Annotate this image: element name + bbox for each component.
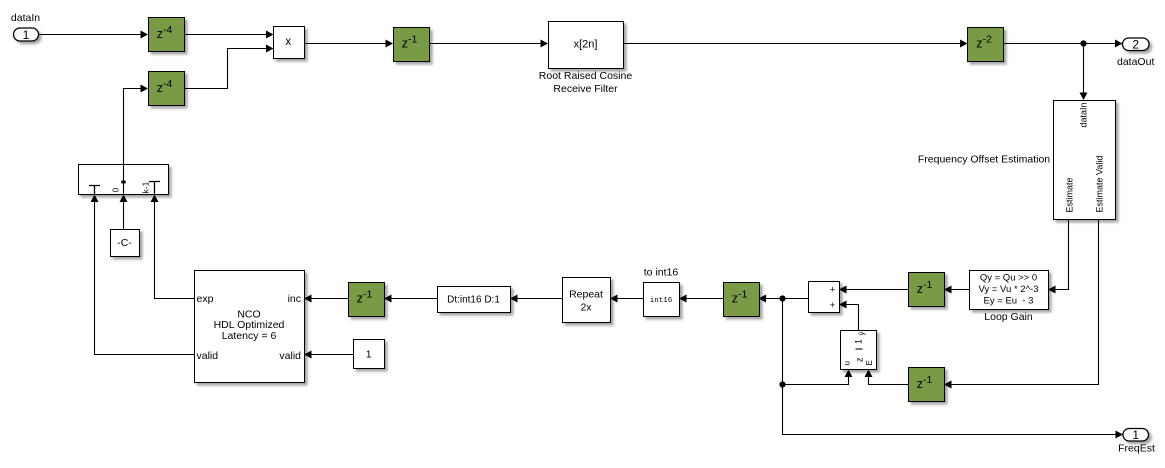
svg-text:valid: valid [197, 350, 219, 362]
svg-text:x[2n]: x[2n] [574, 39, 598, 51]
svg-text:2x: 2x [580, 302, 592, 314]
wire -C- up to switch [123, 202, 125, 229]
delay block z^-1 top [394, 28, 430, 62]
svg-text:1: 1 [854, 339, 864, 344]
svg-text:ŷ: ŷ [857, 332, 866, 336]
wire Estimate Valid down-left to z^-1 lower [952, 219, 1099, 385]
svg-text:Frequency Offset Estimation: Frequency Offset Estimation [918, 154, 1050, 166]
wire junction A down to junction B [782, 299, 784, 385]
Frequency Offset Estimation block [1054, 101, 1116, 220]
wire Loop Gain to z^-1 upper [952, 289, 970, 291]
rate transition block Dt:int16 D:1 [438, 287, 511, 313]
wire RRC to z^-2 [623, 43, 960, 45]
unit delay enabled block 1/z [841, 331, 877, 370]
svg-text:to int16: to int16 [644, 267, 679, 279]
delay block z^-1 right upper [909, 273, 945, 307]
svg-text:+: + [830, 285, 835, 295]
svg-text:Dt:int16 D:1: Dt:int16 D:1 [447, 295, 500, 306]
svg-text:Qy = Qu >> 0: Qy = Qu >> 0 [980, 273, 1037, 284]
svg-text:Ey = Eu - 3: Ey = Eu - 3 [984, 296, 1034, 307]
junction B [779, 381, 785, 387]
wire constant 1 to NCO valid [312, 354, 354, 356]
svg-text:Latency = 6: Latency = 6 [222, 330, 277, 342]
svg-text:exp: exp [197, 293, 214, 305]
junction A [779, 295, 785, 301]
svg-text:dataIn: dataIn [1079, 103, 1089, 128]
svg-text:2: 2 [1132, 38, 1139, 52]
wire junction B down to FreqEst [783, 385, 1116, 435]
control square [121, 181, 125, 184]
RRC filter block x[2n] [549, 22, 624, 69]
delay block z^-1 right lower [909, 368, 945, 402]
wire Repeat to Dt block [518, 298, 563, 300]
svg-text:int16: int16 [650, 297, 673, 305]
NCO block [195, 271, 305, 383]
wire junction B to 1/z u input [783, 377, 849, 385]
svg-text:u: u [843, 361, 852, 365]
wire Dt block to z^-1 [392, 298, 438, 300]
svg-text:1: 1 [1132, 428, 1139, 442]
wire z^-1 lower to 1/z E input [869, 377, 909, 385]
svg-text:Loop Gain: Loop Gain [984, 311, 1033, 323]
sum block [809, 282, 840, 313]
svg-text:-C-: -C- [117, 237, 132, 249]
svg-text:Vy = Vu * 2^-3: Vy = Vu * 2^-3 [979, 284, 1039, 295]
delay block z^-4 #1 [149, 18, 185, 52]
wire dataIn to Delay1 [39, 34, 141, 36]
junction dataOut branch [1080, 40, 1086, 46]
product block x [274, 27, 305, 59]
wire Delay2 to Product in2 [184, 49, 266, 89]
delay block z^-2 [968, 28, 1004, 62]
svg-text:E: E [865, 360, 874, 365]
wire z^-2 to dataOut [1004, 43, 1116, 45]
wire z^-1 to RRC filter [429, 43, 541, 45]
svg-text:Root Raised Cosine: Root Raised Cosine [539, 70, 633, 82]
wire switch output up to Delay2 [124, 89, 141, 165]
svg-text:inc: inc [288, 293, 301, 305]
input port dataIn oval 1 [14, 28, 39, 42]
svg-text:0: 0 [111, 188, 121, 193]
svg-text:Estimate: Estimate [1065, 177, 1075, 212]
svg-text:dataOut: dataOut [1117, 56, 1154, 68]
wire z^-1 upper to Sum in1 [847, 289, 909, 291]
constant block 1 [354, 340, 385, 369]
data type conversion block int16 [644, 283, 680, 317]
wire junction down to Frequency Offset Estimation [1083, 44, 1085, 93]
Loop Gain block [970, 271, 1049, 310]
delay block z^-1 mid right [724, 283, 760, 317]
delay block z^-4 #2 [149, 72, 185, 106]
constant block -C- [111, 230, 140, 257]
fraction bar [856, 348, 863, 350]
wire 1/z y out to Sum in2 [847, 305, 859, 331]
svg-text:dataIn: dataIn [11, 12, 40, 24]
svg-text:FreqEst: FreqEst [1118, 443, 1155, 455]
wire Product to Delay z^-1 [304, 43, 386, 45]
repeat block [563, 278, 611, 323]
port marker T right [149, 182, 160, 195]
svg-text:x: x [285, 36, 291, 48]
delay block z^-1 mid left [349, 283, 385, 317]
wire Estimate to Loop Gain [1056, 219, 1069, 290]
output port dataOut oval 2 [1123, 38, 1150, 52]
svg-text:1: 1 [366, 349, 372, 361]
wire Sum out to z^-1 chain with junction A [766, 298, 808, 300]
svg-text:k-1: k-1 [141, 181, 151, 193]
svg-text:Estimate Valid: Estimate Valid [1095, 156, 1105, 213]
svg-text:z: z [855, 357, 865, 362]
control line through [123, 164, 125, 194]
svg-text:valid: valid [279, 350, 301, 362]
wire z^-1 to NCO inc [312, 298, 349, 300]
port marker T left [89, 186, 100, 195]
wire z^-1 to int16 [687, 298, 724, 300]
output port FreqEst oval 1 [1123, 428, 1149, 442]
wire NCO valid up to switch [95, 202, 195, 355]
switch block (multiport) [79, 164, 169, 195]
svg-text:+: + [830, 300, 835, 310]
svg-text:Receive Filter: Receive Filter [553, 83, 618, 95]
svg-text:1: 1 [23, 28, 30, 42]
wire int16 to Repeat [618, 298, 644, 300]
wire NCO exp up to switch [155, 202, 195, 299]
svg-text:Repeat: Repeat [569, 289, 603, 301]
wire Delay1 to Product in1 [184, 34, 266, 36]
